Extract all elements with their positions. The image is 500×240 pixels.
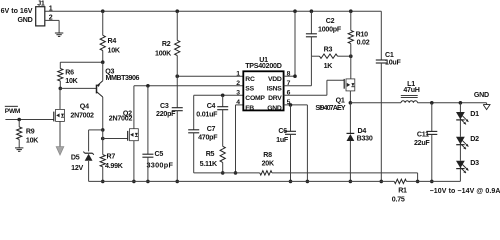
svg-text:D1: D1 bbox=[470, 110, 479, 118]
svg-text:3: 3 bbox=[236, 90, 240, 97]
wire switch to L1 bbox=[350, 102, 401, 104]
svg-text:20K: 20K bbox=[262, 160, 275, 168]
capacitor C1 bbox=[376, 11, 402, 181]
node C6 top bbox=[289, 103, 293, 107]
wire R10 to Q1 source bbox=[350, 56, 352, 79]
wire J1 pin2 to ground bbox=[45, 20, 59, 33]
capacitor C2 bbox=[306, 11, 342, 56]
resistor R2 bbox=[155, 11, 180, 76]
wire -VOUT rail bbox=[89, 180, 395, 182]
svg-text:J1: J1 bbox=[37, 0, 45, 8]
pin 1 RC bbox=[236, 70, 255, 83]
svg-text:1000pF: 1000pF bbox=[318, 25, 342, 33]
svg-text:GND: GND bbox=[474, 91, 489, 99]
node SS C5 bbox=[146, 84, 150, 88]
node switch bbox=[349, 101, 353, 105]
resistor R3 bbox=[311, 46, 350, 70]
svg-text:12V: 12V bbox=[71, 164, 83, 172]
node VDD corner bbox=[293, 74, 297, 78]
svg-text:R8: R8 bbox=[263, 151, 272, 159]
wire L1 to GND bbox=[418, 102, 487, 104]
svg-text:47uH: 47uH bbox=[403, 86, 419, 94]
pin 7 ISNS bbox=[267, 80, 291, 93]
pin 3 COMP bbox=[236, 90, 265, 103]
capacitor C6 bbox=[276, 105, 296, 181]
svg-text:4: 4 bbox=[236, 99, 240, 106]
node D4 bottom bbox=[349, 180, 353, 184]
svg-text:FB: FB bbox=[245, 105, 254, 112]
resistor R5 bbox=[200, 146, 226, 173]
svg-text:R2: R2 bbox=[162, 40, 171, 48]
svg-text:MMBT3906: MMBT3906 bbox=[106, 74, 140, 82]
wire RC bbox=[177, 75, 243, 77]
capacitor C3 bbox=[156, 76, 183, 181]
svg-text:22uF: 22uF bbox=[414, 139, 430, 147]
svg-text:2: 2 bbox=[236, 80, 240, 87]
node VIN junction R4 bbox=[101, 9, 105, 13]
pin 2 SS bbox=[236, 80, 254, 93]
capacitor C4 bbox=[196, 95, 228, 146]
node R7 bottom bbox=[101, 180, 105, 184]
wire LED string top bbox=[459, 103, 461, 112]
svg-text:10uF: 10uF bbox=[385, 58, 401, 66]
node R6 Q4 Q3 base bbox=[59, 87, 63, 91]
wire Q4 drain bbox=[59, 88, 61, 109]
svg-text:DRV: DRV bbox=[268, 95, 282, 102]
inductor L1 bbox=[401, 80, 420, 103]
node GND pin bottom bbox=[306, 180, 310, 184]
capacitor C7 bbox=[188, 95, 218, 173]
resistor R10 bbox=[348, 11, 370, 56]
node FB sense bottom bbox=[416, 180, 420, 184]
node PWM R9 bbox=[17, 118, 21, 122]
wire FB line bbox=[194, 172, 260, 174]
wire Q2 source bbox=[133, 141, 135, 182]
ground output bbox=[483, 103, 490, 110]
wire FB bbox=[236, 105, 244, 173]
svg-text:C5: C5 bbox=[155, 150, 164, 158]
diode D5 zener bbox=[71, 152, 94, 182]
diode D2 LED bbox=[456, 135, 479, 149]
resistor R1 bbox=[392, 179, 407, 203]
node R3 R10 bbox=[349, 54, 353, 58]
pin 6 DRV bbox=[268, 90, 290, 103]
svg-text:SS: SS bbox=[245, 86, 254, 93]
node VIN junction R2 bbox=[175, 9, 179, 13]
svg-text:C4: C4 bbox=[207, 102, 216, 110]
node Q3 collector Q2 gate bbox=[101, 137, 105, 141]
svg-text:ISNS: ISNS bbox=[267, 86, 283, 93]
svg-text:10K: 10K bbox=[26, 137, 39, 145]
svg-text:1: 1 bbox=[49, 5, 53, 13]
transistor Q3 bbox=[97, 62, 140, 97]
connector J1 bbox=[36, 0, 45, 26]
node C1 bottom bbox=[380, 180, 384, 184]
node Q3 collector D5 branch bbox=[101, 128, 105, 132]
svg-text:GND: GND bbox=[267, 105, 282, 112]
diode D1 LED bbox=[456, 110, 479, 124]
svg-text:R6: R6 bbox=[65, 69, 74, 77]
wire SS bbox=[134, 85, 243, 87]
wire GND pin bbox=[284, 105, 308, 181]
capacitor C11 bbox=[414, 103, 437, 182]
svg-text:R5: R5 bbox=[206, 150, 215, 158]
node FB line bbox=[234, 171, 238, 175]
svg-text:2N7002: 2N7002 bbox=[70, 112, 94, 120]
svg-text:C2: C2 bbox=[326, 17, 335, 25]
diode D3 LED bbox=[456, 159, 479, 173]
wire to D5 bbox=[89, 130, 103, 152]
svg-text:3300pF: 3300pF bbox=[147, 160, 174, 169]
svg-text:PWM: PWM bbox=[5, 108, 21, 115]
pin 4 FB bbox=[236, 99, 254, 112]
svg-text:D2: D2 bbox=[470, 135, 479, 143]
svg-text:C6: C6 bbox=[278, 127, 287, 135]
wire D2 D3 bbox=[459, 145, 461, 161]
svg-text:R10: R10 bbox=[356, 30, 369, 38]
svg-text:1K: 1K bbox=[324, 62, 334, 70]
wire D1 D2 bbox=[459, 120, 461, 137]
svg-text:SI9407AEY: SI9407AEY bbox=[315, 104, 346, 112]
transistor Q4 bbox=[54, 103, 94, 122]
svg-text:4.99K: 4.99K bbox=[105, 162, 124, 170]
ground R9 bbox=[15, 148, 23, 151]
node VIN junction VDD bbox=[293, 9, 297, 13]
capacitor C5 bbox=[142, 86, 173, 182]
resistor R7 bbox=[100, 153, 124, 182]
svg-text:220pF: 220pF bbox=[156, 110, 176, 118]
wire COMP bbox=[194, 94, 244, 96]
wire Q3 collector bbox=[102, 97, 104, 130]
svg-text:C11: C11 bbox=[417, 131, 429, 139]
svg-text:RC: RC bbox=[245, 76, 255, 83]
svg-text:−10V to −14V @ 0.9A: −10V to −14V @ 0.9A bbox=[430, 188, 500, 195]
svg-text:5.11K: 5.11K bbox=[200, 160, 218, 168]
wire Q1 drain bbox=[349, 91, 351, 103]
wire DRV to Q1 gate bbox=[284, 80, 345, 95]
svg-text:100K: 100K bbox=[155, 50, 172, 58]
wire ISNS bbox=[284, 56, 312, 86]
node LED top bbox=[459, 101, 463, 105]
op-amp U1 TPS40200D bbox=[243, 56, 283, 111]
node COMP C4 bbox=[221, 94, 225, 98]
svg-text:1: 1 bbox=[236, 70, 240, 77]
label GND output bbox=[474, 91, 489, 99]
wire VIN rail bbox=[45, 10, 382, 12]
svg-text:D3: D3 bbox=[470, 159, 479, 167]
label GND input bbox=[17, 16, 32, 24]
wire down to R7 bbox=[102, 130, 104, 155]
resistor R4 bbox=[100, 11, 121, 62]
svg-text:0.01uF: 0.01uF bbox=[196, 110, 218, 118]
svg-text:GND: GND bbox=[17, 16, 32, 24]
svg-text:R7: R7 bbox=[107, 153, 116, 161]
node C11 top bbox=[430, 101, 434, 105]
node VIN junction R10 bbox=[349, 9, 353, 13]
svg-text:2N7002: 2N7002 bbox=[109, 115, 133, 123]
label 6V to 16V bbox=[1, 7, 33, 15]
svg-text:R1: R1 bbox=[398, 186, 407, 194]
svg-text:C7: C7 bbox=[207, 125, 216, 133]
pin 1 J1 bbox=[49, 5, 53, 13]
label output bbox=[430, 188, 500, 195]
resistor R9 bbox=[17, 120, 40, 148]
svg-text:6V to 16V: 6V to 16V bbox=[1, 7, 33, 15]
svg-text:R4: R4 bbox=[108, 37, 117, 45]
node C5 bottom bbox=[146, 180, 150, 184]
svg-text:10K: 10K bbox=[108, 46, 121, 54]
svg-text:TPS40200D: TPS40200D bbox=[245, 62, 282, 70]
svg-text:470pF: 470pF bbox=[198, 134, 218, 142]
svg-text:R9: R9 bbox=[26, 128, 35, 136]
pin 5 GND bbox=[267, 99, 290, 112]
ground input bbox=[55, 33, 63, 36]
node RC R2 C3 bbox=[175, 74, 179, 78]
svg-text:COMP: COMP bbox=[245, 95, 265, 102]
wire D3 bottom bbox=[459, 169, 461, 182]
node R4 R6 Q3 bbox=[101, 60, 105, 64]
svg-text:B330: B330 bbox=[357, 134, 373, 142]
transistor Q1 bbox=[315, 79, 354, 112]
svg-text:C3: C3 bbox=[160, 102, 169, 110]
wire Q2 drain to SS bbox=[133, 86, 135, 129]
transistor Q2 bbox=[109, 110, 139, 141]
svg-text:0.02: 0.02 bbox=[357, 38, 370, 46]
wire Q3 base bbox=[60, 87, 96, 89]
pin 2 J1 bbox=[49, 14, 53, 22]
svg-text:VDD: VDD bbox=[268, 76, 282, 83]
resistor R8 bbox=[260, 151, 275, 175]
node Q2 source bottom bbox=[132, 180, 136, 184]
wire FB line right bbox=[272, 173, 418, 182]
off-page arrow -VOUT bbox=[56, 147, 64, 155]
diode D4 B330 bbox=[347, 103, 373, 182]
wire Q4 source bbox=[59, 121, 61, 146]
node C11 bottom bbox=[430, 180, 434, 184]
node VIN junction C2 bbox=[310, 9, 314, 13]
wire PWM to Q4 gate bbox=[5, 119, 53, 121]
svg-text:1uF: 1uF bbox=[276, 136, 289, 144]
resistor R6 bbox=[58, 62, 79, 88]
wire -VOUT rail right bbox=[406, 180, 460, 182]
node C3 bottom bbox=[175, 180, 179, 184]
svg-text:Q4: Q4 bbox=[80, 103, 89, 111]
svg-text:10K: 10K bbox=[65, 77, 78, 85]
pin 8 VDD bbox=[268, 70, 291, 83]
wire VDD to rail bbox=[284, 11, 295, 76]
wire R4 to R6 bbox=[60, 61, 102, 63]
label PWM bbox=[5, 106, 21, 115]
svg-text:R3: R3 bbox=[324, 46, 333, 54]
svg-text:0.75: 0.75 bbox=[392, 195, 405, 203]
wire Q2 gate bbox=[103, 138, 128, 140]
node C6 bottom bbox=[289, 180, 293, 184]
svg-text:D5: D5 bbox=[71, 154, 80, 162]
node R5 FB line bbox=[221, 171, 225, 175]
